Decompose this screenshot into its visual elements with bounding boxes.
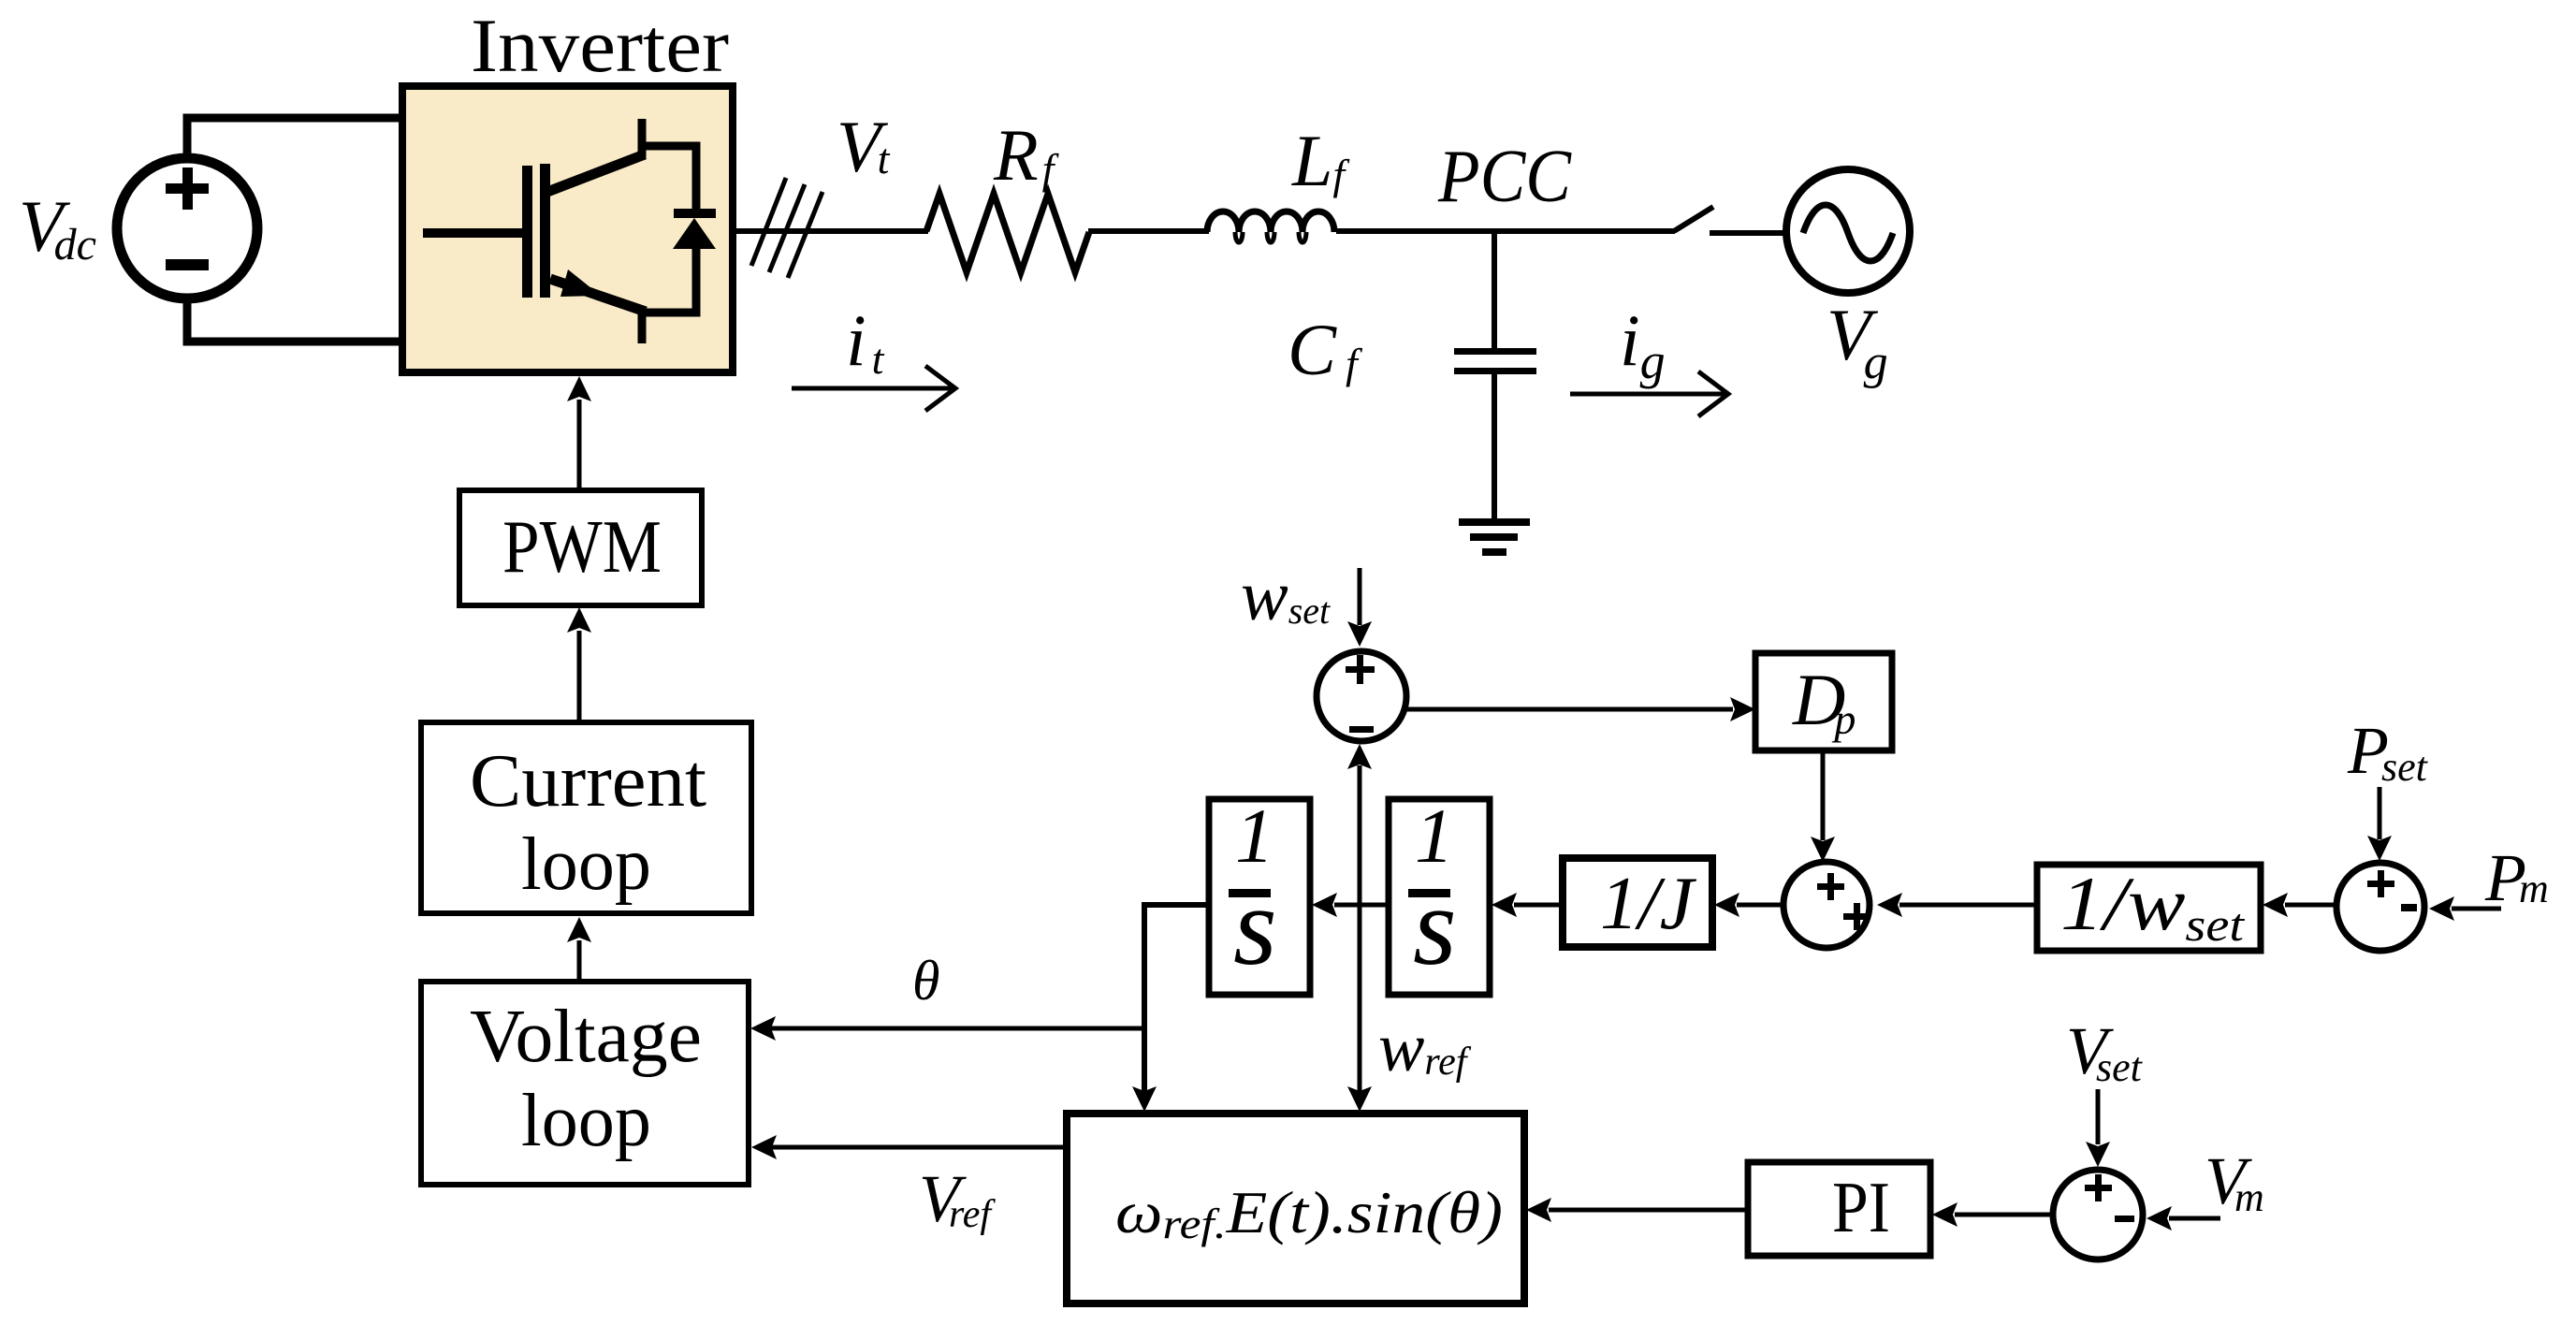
svg-text:Voltage: Voltage [470, 994, 702, 1078]
label omega_ref E(t) sin(theta) [1115, 1179, 1503, 1247]
IGBT Q1 emitter diagonal [550, 279, 646, 312]
block integrator 1 (1/s) [1209, 799, 1310, 995]
S3 minus sign [2401, 904, 2417, 911]
block Voltage loop [421, 982, 749, 1185]
label Inverter [471, 3, 729, 88]
arrow Dp to summing junction S2 [1811, 750, 1835, 862]
block PI [1748, 1162, 1930, 1256]
label 1/s integrator 1 [1229, 793, 1277, 988]
IGBT Q1 body bar [540, 164, 550, 298]
arrow w_ref vertical into S1 minus and sine block [1347, 744, 1372, 1112]
IGBT Q1 collector stub [638, 119, 647, 157]
arrow S3 to 1/w_set [2263, 893, 2336, 917]
DC source Vdc [117, 158, 257, 298]
arrow P_m into S3 [2429, 896, 2501, 921]
label Dp [1792, 659, 1856, 743]
svg-text:loop: loop [521, 823, 651, 906]
summing junction S2 [1783, 862, 1870, 948]
svg-text:Inverter: Inverter [471, 3, 729, 88]
wire switch to Vg [1710, 230, 1785, 236]
svg-text:PWM: PWM [502, 506, 662, 589]
arrow PI to sine block [1526, 1198, 1748, 1222]
arrow S4 to PI [1932, 1202, 2053, 1227]
label V_m [2205, 1143, 2264, 1220]
block PWM [459, 490, 702, 605]
arrow 1/w_set to S2 [1877, 893, 2037, 917]
wire inductor to PCC and switch [1336, 228, 1675, 234]
arrow S2 to 1/J [1714, 893, 1783, 917]
label P_set [2347, 713, 2429, 790]
label 1/s integrator 2 [1408, 793, 1457, 988]
Vdc plus terminal mark [166, 167, 209, 210]
label Current loop [470, 738, 706, 906]
label ig [1620, 299, 1666, 389]
IGBT Q1 gate lead [423, 228, 524, 238]
svg-text:Current: Current [470, 738, 706, 823]
wire S1 to Dp [1404, 697, 1755, 721]
arrow 1/J to integrator 2 [1492, 893, 1563, 917]
Vg sine mark [1803, 205, 1893, 261]
block integrator 2 (1/s) [1389, 799, 1490, 995]
inductor Lf [1207, 211, 1334, 242]
S3 plus sign [2367, 870, 2394, 897]
arrow Current loop to PWM [567, 607, 591, 721]
arrow integrator2 to integrator1 [1312, 893, 1389, 917]
block Dp [1755, 653, 1892, 750]
block 1/J [1563, 858, 1712, 947]
ground [1459, 522, 1530, 552]
summing junction S3 [2336, 863, 2424, 951]
label Voltage loop [470, 994, 702, 1162]
IGBT Q1 emitter stub [638, 310, 647, 343]
block sine generator [1067, 1114, 1524, 1303]
S1 plus sign [1346, 655, 1375, 684]
wire resistor to inductor [1088, 228, 1209, 234]
label Rf [993, 114, 1060, 196]
label 1/w_set [2060, 861, 2245, 951]
IGBT Q1 gate bar [522, 166, 532, 298]
wire integrator1 output to theta corner [1144, 905, 1209, 1028]
label P_m [2484, 840, 2549, 915]
wire V_ref from sine block to voltage loop [751, 1135, 1067, 1159]
arrow Voltage loop to Current loop [567, 917, 591, 983]
diode D1 cathode bar [674, 209, 716, 218]
label it [846, 299, 885, 383]
label w_ref [1378, 1010, 1472, 1086]
svg-text:s: s [1233, 864, 1277, 988]
label Vt [837, 106, 891, 187]
switch blade [1674, 207, 1713, 231]
summing junction S4 [2053, 1170, 2143, 1259]
arrow w_set into summing junction S1 [1347, 568, 1372, 647]
wire capacitor to ground [1492, 374, 1497, 521]
S2 plus sign right [1843, 903, 1870, 930]
resistor Rf [926, 194, 1089, 272]
Vdc minus terminal mark [166, 259, 209, 270]
AC source Vg [1786, 169, 1910, 293]
label Vg [1826, 294, 1888, 389]
label 1/J [1600, 863, 1697, 945]
label theta [912, 950, 939, 1012]
label Lf [1291, 120, 1350, 201]
arrow V_set into S4 [2086, 1089, 2110, 1167]
three-phase slash marks [751, 178, 822, 278]
arrow V_m into S4 [2147, 1206, 2220, 1230]
svg-text:PI: PI [1832, 1167, 1890, 1247]
wire inverter output Vt [733, 228, 928, 234]
svg-text:PCC: PCC [1437, 136, 1572, 218]
current arrow ig [1570, 371, 1728, 416]
label V_ref [919, 1161, 996, 1236]
wire collector to diode top [642, 146, 696, 211]
IGBT Q1 emitter arrow [560, 269, 601, 297]
svg-text:s: s [1413, 864, 1457, 988]
label PCC [1437, 136, 1572, 218]
S1 minus sign [1349, 726, 1374, 733]
arrow PWM to inverter [567, 376, 591, 490]
current arrow it [792, 366, 955, 411]
label PWM [502, 506, 662, 589]
svg-text:loop: loop [521, 1080, 651, 1162]
block Current loop [421, 722, 751, 913]
capacitor Cf plates [1454, 348, 1536, 374]
wire emitter to diode bottom [642, 247, 696, 313]
label w_set [1241, 557, 1331, 635]
arrow P_set into S3 [2367, 787, 2392, 861]
S4 plus sign [2085, 1174, 2112, 1201]
label PI [1832, 1167, 1890, 1247]
summing junction S1 [1317, 651, 1406, 741]
svg-text:1/J: 1/J [1600, 863, 1697, 945]
label V_set [2066, 1013, 2144, 1090]
label Vdc [19, 185, 96, 269]
svg-text:θ: θ [912, 950, 939, 1012]
S2 plus sign top [1817, 873, 1844, 900]
block 1/w_set [2037, 865, 2261, 951]
node PCC capacitor branch [1492, 231, 1497, 351]
wire Vdc top to inverter [187, 118, 404, 161]
wire Vdc bottom to inverter [187, 296, 404, 342]
diode D1 triangle [673, 218, 716, 249]
label Cf [1288, 309, 1363, 390]
wire theta to voltage loop [750, 1016, 1147, 1041]
arrow theta branch into sine block [1132, 1028, 1157, 1112]
IGBT Q1 collector diagonal [547, 154, 645, 192]
S4 minus sign [2115, 1216, 2134, 1222]
inverter block [402, 86, 733, 372]
